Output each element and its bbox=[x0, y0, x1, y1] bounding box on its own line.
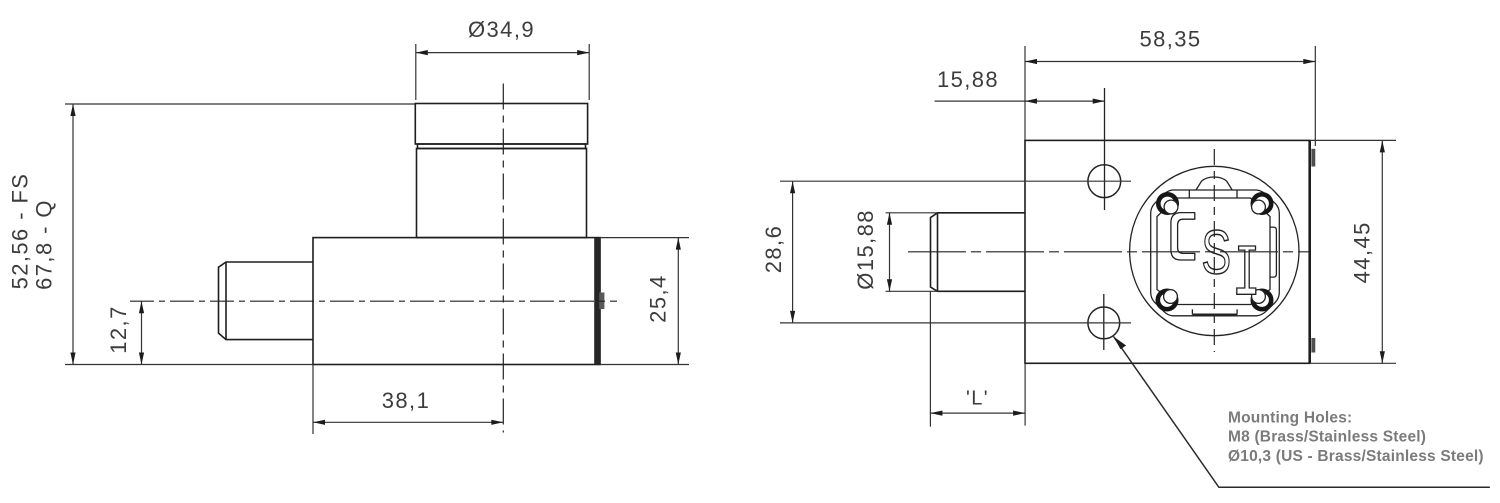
dim 52,56/67,8 line bbox=[72, 104, 74, 365]
svg-text:Ø10,3 (US - Brass/Stainless St: Ø10,3 (US - Brass/Stainless Steel) bbox=[1228, 448, 1484, 465]
bottom key slot thick bbox=[1192, 314, 1237, 317]
right key tab bbox=[1270, 227, 1276, 277]
groove band under cap bbox=[418, 144, 586, 149]
svg-text:12,7: 12,7 bbox=[106, 305, 131, 353]
arrows dim 58,35 bbox=[1025, 59, 1037, 64]
letter I bbox=[1237, 246, 1256, 294]
main body bbox=[313, 238, 600, 365]
dim 44,45 extension lines bbox=[1311, 139, 1396, 141]
vertical centerline through connector bbox=[1213, 149, 1215, 352]
vertical centerline bbox=[502, 84, 504, 433]
dim 38,1 extension line bbox=[312, 365, 314, 435]
arrows dim 44,45 bbox=[1380, 140, 1385, 152]
svg-text:15,88: 15,88 bbox=[937, 67, 999, 92]
dim 25,4 line bbox=[677, 238, 679, 365]
corner screw BL bbox=[1158, 290, 1178, 310]
svg-text:44,45: 44,45 bbox=[1350, 221, 1375, 283]
dim 12,7 line bbox=[141, 301, 143, 364]
dim 52,56/67,8 extension lines bbox=[65, 103, 415, 105]
key recess end ticks bbox=[1188, 190, 1190, 198]
mounting hole top bbox=[1088, 165, 1121, 198]
top keying bump bbox=[1196, 177, 1232, 190]
corner screw TL bbox=[1158, 194, 1178, 214]
svg-text:38,1: 38,1 bbox=[382, 388, 430, 413]
arrows dim L bbox=[930, 411, 942, 416]
dim 25,4 extension lines bbox=[600, 237, 689, 239]
connector outer circle bbox=[1130, 166, 1299, 335]
corner screw TR bbox=[1252, 194, 1272, 214]
mounting hole bottom bbox=[1088, 307, 1120, 339]
arrows dim 25,4 bbox=[676, 238, 681, 250]
horizontal centerline through body bbox=[908, 251, 1309, 253]
dim L extension lines bbox=[929, 291, 931, 426]
dim 28,6 extension lines bbox=[780, 180, 1131, 182]
arrows dim 28,6 bbox=[790, 181, 795, 193]
svg-text:67,8 - Q: 67,8 - Q bbox=[32, 199, 57, 290]
arrows dim 15,88 bbox=[1025, 99, 1037, 104]
body right edge thick bbox=[1308, 140, 1311, 363]
dim 58,35 extension lines bbox=[1024, 46, 1026, 140]
right edge tab top bbox=[1311, 149, 1315, 167]
dim 44,45 line bbox=[1381, 140, 1383, 363]
arrows dim Ø15,88 bbox=[887, 213, 892, 225]
dim 28,6 line bbox=[792, 181, 794, 323]
plug (left threaded stub) bbox=[219, 262, 314, 340]
svg-text:Ø34,9: Ø34,9 bbox=[468, 17, 535, 42]
nub on body right edge bbox=[599, 293, 604, 310]
horizontal centerline bbox=[130, 300, 617, 302]
bottom key ticks bbox=[1191, 309, 1193, 314]
arrows dim Ø34,9 bbox=[416, 50, 428, 55]
dim Ø15,88 extension lines bbox=[886, 212, 938, 214]
svg-text:52,56 - FS: 52,56 - FS bbox=[8, 173, 33, 290]
leader line to mounting hole bbox=[1114, 337, 1490, 488]
dim 15,88 line with tail bbox=[935, 100, 1105, 102]
dim Ø34,9 line bbox=[416, 52, 589, 54]
mounting holes note bbox=[1228, 409, 1484, 465]
dim L line bbox=[930, 412, 1025, 414]
svg-text:Mounting Holes:: Mounting Holes: bbox=[1228, 409, 1352, 426]
stub inner end line bbox=[937, 213, 939, 291]
neck (hex section) bbox=[417, 149, 587, 238]
svg-text:58,35: 58,35 bbox=[1139, 27, 1201, 52]
hole bottom crosshair vertical bbox=[1103, 294, 1105, 350]
svg-text:'L': 'L' bbox=[966, 388, 989, 410]
hole top crosshair vertical bbox=[1104, 88, 1106, 210]
stub (left plug) bbox=[931, 213, 1026, 291]
arrows dim 38,1 bbox=[313, 420, 325, 425]
cap (top flange) bbox=[415, 104, 587, 145]
main square body bbox=[1025, 140, 1310, 363]
connector square outer outline bbox=[1151, 190, 1280, 316]
svg-text:25,4: 25,4 bbox=[646, 274, 671, 322]
svg-text:28,6: 28,6 bbox=[761, 225, 786, 273]
arrows dim 12,7 bbox=[139, 301, 144, 313]
dim 38,1 line bbox=[313, 421, 503, 423]
dim 58,35 line bbox=[1025, 61, 1315, 63]
body right edge thick band bbox=[594, 238, 600, 365]
svg-text:M8 (Brass/Stainless Steel): M8 (Brass/Stainless Steel) bbox=[1228, 429, 1426, 446]
connector square inner outline bbox=[1157, 198, 1270, 305]
svg-text:S: S bbox=[1201, 218, 1231, 287]
dim Ø15,88 line bbox=[889, 213, 891, 291]
corner screw BR bbox=[1252, 290, 1272, 310]
letter C bbox=[1171, 213, 1195, 260]
arrows dim 52,56/67,8 bbox=[70, 104, 75, 116]
plug inner end line bbox=[225, 262, 227, 340]
svg-text:Ø15,88: Ø15,88 bbox=[853, 209, 878, 290]
dim Ø34,9 extension lines bbox=[415, 44, 417, 100]
leader arrowhead bbox=[1114, 337, 1127, 350]
right edge tab bottom bbox=[1311, 338, 1315, 353]
